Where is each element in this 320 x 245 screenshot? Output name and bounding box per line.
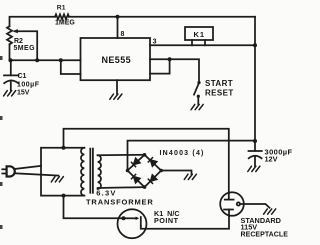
- diode D2: [148, 158, 156, 166]
- svg-text:1MEG: 1MEG: [55, 20, 75, 27]
- wire K1 left leg: [191, 40, 193, 45]
- diode D4: [148, 175, 156, 183]
- node junction dot left: [9, 58, 13, 62]
- wire pin(mid) to switch: [150, 59, 199, 81]
- bridge corner dot top: [143, 153, 147, 157]
- svg-text:5MEG: 5MEG: [14, 45, 36, 52]
- contact arrow: [136, 217, 140, 221]
- wire K1 right leg: [204, 40, 206, 45]
- junction dot rail pin3: [253, 43, 257, 47]
- receptacle side terminal: [237, 202, 240, 205]
- wire pin(low) tie: [150, 59, 170, 73]
- junction dot switch tie: [168, 57, 172, 61]
- receptacle top contact: [225, 193, 234, 200]
- svg-text:15V: 15V: [17, 90, 30, 97]
- svg-text:3: 3: [153, 39, 157, 46]
- bridge corner dot left: [126, 169, 130, 173]
- scan artifact marks: [0, 56, 3, 229]
- wire NE555 ground stub: [116, 80, 118, 94]
- svg-text:IN4003 (4): IN4003 (4): [160, 150, 205, 157]
- wire bridge minus: [161, 171, 191, 175]
- svg-text:RECEPTACLE: RECEPTACLE: [241, 232, 289, 239]
- diode D3: [131, 174, 139, 182]
- ground receptacle: [264, 209, 276, 214]
- bridge corner dot right: [159, 169, 163, 173]
- svg-text:R2: R2: [14, 38, 23, 45]
- wire switched line up-over: [64, 129, 229, 193]
- resistor R2 (rheostat): [7, 26, 12, 44]
- wire top rail right segment: [69, 16, 255, 18]
- junction dot rail cap: [253, 139, 257, 143]
- svg-text:TRANSFORMER: TRANSFORMER: [86, 197, 154, 206]
- relay K1 coil box: [185, 27, 213, 40]
- svg-text:100µF: 100µF: [17, 82, 40, 89]
- wire receptacle ground lead: [240, 204, 269, 208]
- wire bridge plus output: [128, 141, 256, 171]
- ground bridge: [184, 174, 196, 179]
- junction dot primary top: [62, 146, 66, 150]
- svg-text:RESET: RESET: [205, 88, 234, 97]
- transformer core: [90, 149, 93, 193]
- ground plug: [51, 177, 63, 182]
- svg-text:8: 8: [121, 31, 125, 38]
- wire contact arm: [124, 217, 137, 219]
- wire R2 wiper: [17, 31, 38, 60]
- ground switch: [191, 104, 203, 109]
- receptacle J1 circle: [220, 192, 244, 216]
- wire pin2 loop: [61, 60, 81, 74]
- wire pin 3 to relay rail: [150, 44, 255, 46]
- node junction dot pins: [59, 58, 63, 62]
- wire pin 8: [117, 17, 119, 38]
- svg-text:C1: C1: [18, 73, 27, 80]
- transformer T1 primary loop: [41, 148, 84, 196]
- op-amp U1 NE555 box: [81, 38, 151, 80]
- junction dot pin8 rail: [116, 15, 120, 19]
- wire plug neutral: [14, 173, 58, 175]
- ground C1: [4, 91, 16, 96]
- wire contact out bottom rail: [141, 216, 229, 229]
- svg-text:K1: K1: [194, 30, 206, 39]
- wire top rail left segment: [10, 17, 56, 27]
- wire R2 bottom lead: [9, 44, 11, 60]
- svg-text:12V: 12V: [265, 154, 278, 163]
- svg-text:START: START: [205, 79, 233, 88]
- receptacle bottom contact: [224, 210, 233, 217]
- contact bar: [140, 217, 142, 226]
- svg-text:R1: R1: [57, 4, 66, 11]
- svg-text:POINT: POINT: [154, 216, 179, 225]
- relay contact K1 N/C circle: [118, 209, 147, 238]
- junction dot contact: [122, 216, 126, 220]
- junction dot primary bottom: [62, 194, 66, 198]
- resistor R1: [55, 14, 69, 19]
- wire timing node horizontal: [10, 59, 81, 61]
- plug AC: [2, 166, 15, 176]
- svg-text:115V: 115V: [241, 222, 258, 231]
- wire secondary bottom to bridge: [98, 186, 145, 189]
- svg-text:NE555: NE555: [102, 55, 132, 65]
- ground C3: [248, 166, 260, 171]
- transformer primary winding: [81, 148, 84, 196]
- ground NE555: [110, 94, 122, 99]
- capacitor C1: [4, 60, 19, 90]
- bridge rectifier diamond: [128, 155, 162, 187]
- R2 wiper arrow: [12, 29, 18, 33]
- wire plug hot: [14, 166, 41, 169]
- node junction dot wiper: [35, 58, 39, 62]
- svg-text:6.3V: 6.3V: [96, 189, 116, 198]
- transformer secondary winding: [98, 155, 101, 189]
- wire primary bottom to contact: [64, 196, 124, 219]
- bridge corner dot bottom: [143, 185, 147, 189]
- capacitor C3 3000uF: [249, 141, 262, 166]
- switch S1 start-reset: [194, 81, 201, 104]
- diode D1: [131, 158, 139, 166]
- wire right rail: [254, 17, 256, 141]
- wire secondary top to bridge: [98, 154, 145, 156]
